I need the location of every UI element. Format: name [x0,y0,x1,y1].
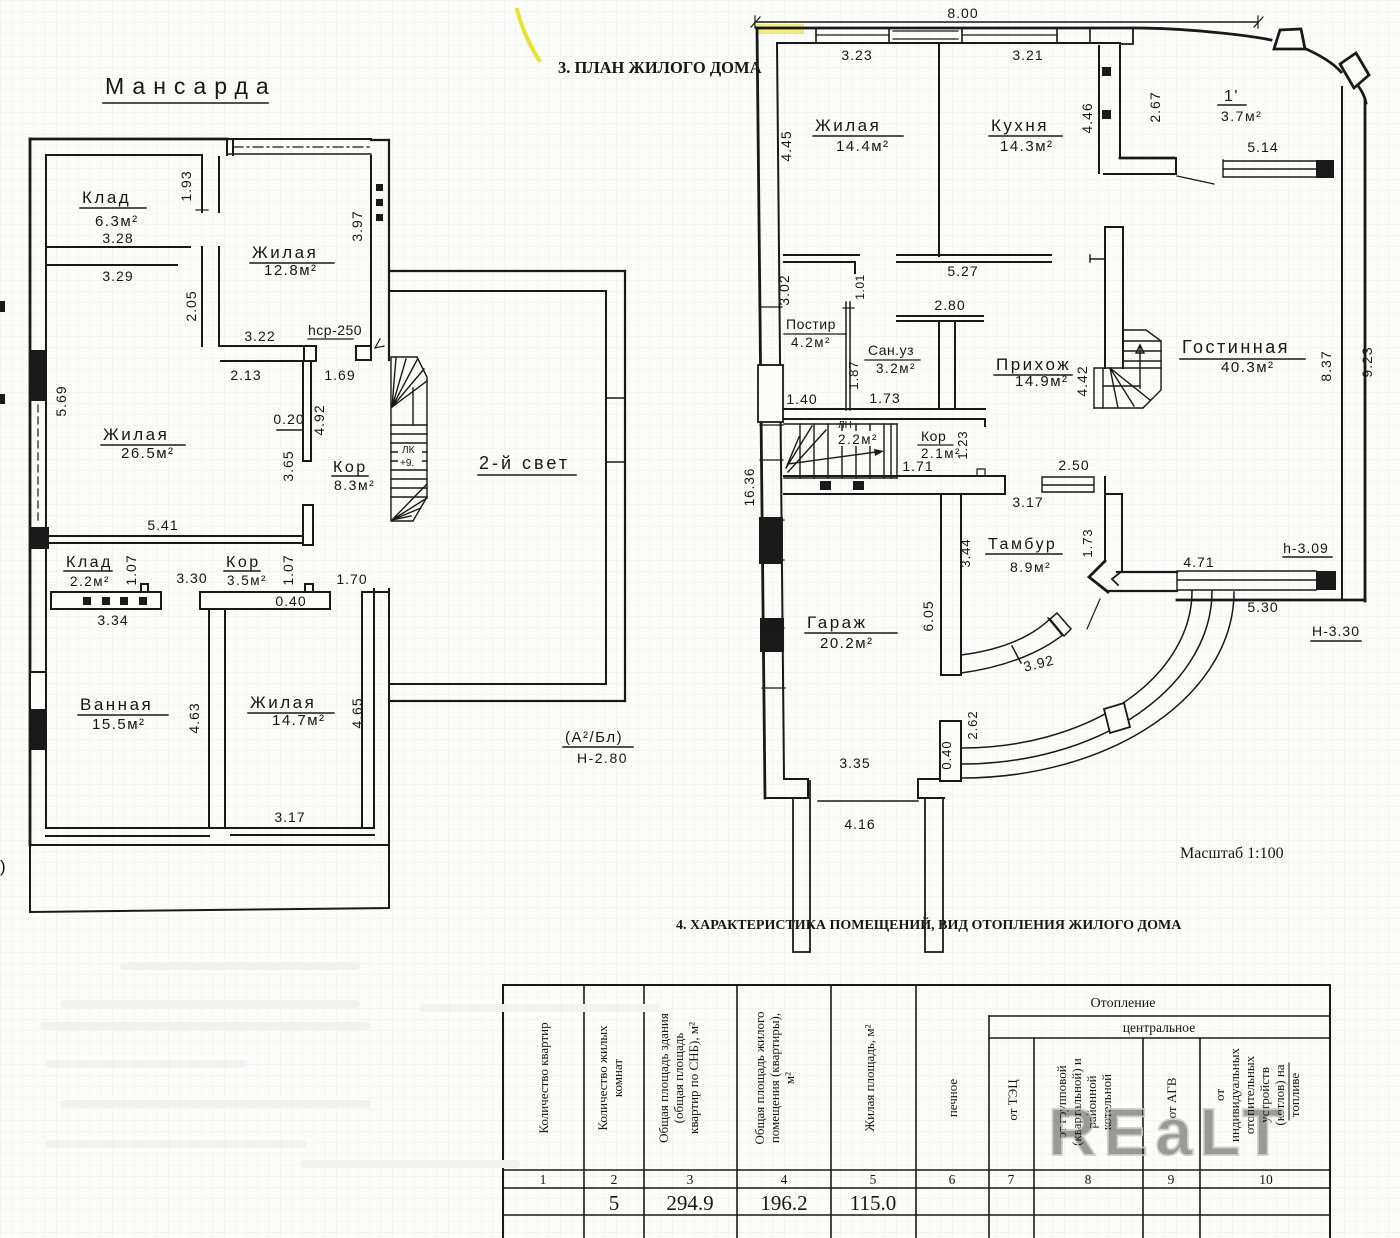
svg-text:12.8м²: 12.8м² [264,262,318,279]
room label Klad 6.3 [82,188,139,230]
rotated headers [536,1012,1302,1146]
svg-text:1.07: 1.07 [280,554,296,585]
partition wall 3.28/3.29 [46,247,190,265]
chimney bump 2 [1340,53,1369,88]
room label Tambur [988,536,1057,575]
garage bottom piers [765,779,808,798]
svg-text:7: 7 [1008,1172,1015,1187]
svg-text:6.05: 6.05 [920,600,936,631]
title Mansarda [105,73,277,99]
svg-text:3.02: 3.02 [776,274,792,305]
svg-text:печное: печное [945,1079,960,1118]
svg-text:3.30: 3.30 [176,570,207,586]
faint bleed-through smudges bottom left [40,962,660,1168]
stair box left plan [391,357,427,521]
svg-text:hср-250: hср-250 [308,322,362,338]
sill 2.80 [934,297,965,313]
svg-text:Гостинная: Гостинная [1182,337,1290,357]
svg-text:2.50: 2.50 [1058,457,1089,473]
svg-text:h-3.09: h-3.09 [1283,540,1329,556]
svg-text:14.4м²: 14.4м² [836,138,890,155]
top wall inner [777,42,1120,44]
left wall solid piers [759,517,783,564]
svg-text:4. ХАРАКТЕРИСТИКА ПОМЕЩЕНИЙ, В: 4. ХАРАКТЕРИСТИКА ПОМЕЩЕНИЙ, ВИД ОТОПЛЕН… [676,916,1182,933]
svg-text:3.5м²: 3.5м² [227,573,267,588]
dim line 8.00 [755,21,1258,23]
svg-text:Общая площадь здания: Общая площадь здания [656,1013,671,1143]
svg-text:294.9: 294.9 [666,1191,713,1215]
sill band row 2 [200,592,330,609]
room label Zhilaya 14.4 [815,116,890,155]
window vent squares [376,184,383,221]
svg-text:3.22: 3.22 [244,328,275,344]
svg-text:Гараж: Гараж [807,613,868,632]
label (A2/Bl) N-2.80 [565,729,628,766]
svg-text:20.2м²: 20.2м² [820,635,874,652]
partition vertical 4.92 [303,361,311,461]
plan title [558,58,762,77]
svg-text:16.36: 16.36 [742,468,757,507]
dim 1.87 (rot) [846,360,861,389]
svg-text:3.34: 3.34 [97,612,128,628]
garage right wall [941,494,961,675]
svg-text:1.73: 1.73 [869,390,900,406]
svg-text:Масштаб 1:100: Масштаб 1:100 [1180,845,1284,862]
svg-text:3.21: 3.21 [1012,47,1043,63]
room label Zhilaya 14.7 [250,693,326,729]
svg-text:2.13: 2.13 [230,367,261,383]
labels Klad 2.2 / Kor 3.5 row [66,554,368,589]
dim 1.93 (rot) [178,170,194,201]
wall squares [1102,67,1111,119]
svg-text:Отопление: Отопление [1091,996,1156,1011]
pier at stair corner [356,346,371,360]
svg-text:1.07: 1.07 [123,554,139,585]
room label 1' 3.7 [1221,88,1262,124]
NE corner room walls [1098,46,1100,173]
svg-text:центральное: центральное [1123,1020,1195,1035]
room label Kor 2.1 [902,428,970,474]
room label Kor 8.3 [333,459,375,493]
svg-text:5.69: 5.69 [53,385,69,416]
stair arrow small [375,339,384,348]
room label Prihozh [996,355,1071,390]
table horizontal lines [989,1015,1330,1017]
column numbers row [540,1172,1273,1187]
Sanuz right wall [939,321,955,409]
svg-text:3: 3 [687,1172,694,1187]
svg-text:196.2: 196.2 [760,1191,807,1215]
svg-text:14.7м²: 14.7м² [272,712,326,729]
svg-text:3.28: 3.28 [102,230,133,246]
svg-text:2.2м²: 2.2м² [838,432,878,447]
svg-text:1.69: 1.69 [324,367,355,383]
svg-text:8.9м²: 8.9м² [1010,559,1051,575]
svg-text:6.3м²: 6.3м² [95,213,139,230]
svg-text:15.5м²: 15.5м² [92,716,146,733]
table vertical lines [583,985,585,1238]
svg-text:Прихож: Прихож [996,355,1071,374]
step pier column [940,721,961,781]
svg-text:1.87: 1.87 [846,360,861,389]
svg-text:4.63: 4.63 [186,702,202,733]
top wall inner [46,154,202,156]
svg-text:2: 2 [611,1172,618,1187]
dim 2.05 (rot) [183,290,199,321]
svg-text:2.2м²: 2.2м² [70,574,110,589]
svg-text:Количество квартир: Количество квартир [536,1022,551,1133]
dim 8.37 / 9.23 (rot) [1318,346,1375,381]
chamfer miter [1089,561,1108,592]
table title [676,916,1182,933]
svg-text:115.0: 115.0 [850,1191,896,1215]
svg-text:2-й свет: 2-й свет [479,453,570,473]
svg-text:1.40: 1.40 [786,391,817,407]
svg-text:квартир по СНБ), м²: квартир по СНБ), м² [686,1022,701,1134]
svg-text:4.2м²: 4.2м² [791,335,831,350]
svg-text:1.70: 1.70 [336,571,367,587]
svg-text:4.92: 4.92 [311,404,327,435]
partition Zhilaya/Kuhnya [938,43,940,256]
svg-text:5: 5 [609,1191,620,1215]
svg-text:1.01: 1.01 [853,274,867,299]
svg-text:Клад: Клад [66,554,113,571]
svg-text:Жилая: Жилая [103,425,169,444]
svg-text:5.41: 5.41 [147,517,178,533]
scale label [1180,845,1284,862]
svg-text:8: 8 [1085,1172,1092,1187]
svg-text:Жилая площадь, м²: Жилая площадь, м² [862,1024,877,1131]
room label Postir [786,316,836,350]
svg-text:Общая площадь жилого: Общая площадь жилого [752,1012,767,1145]
svg-text:26.5м²: 26.5м² [121,445,175,462]
shelf 5.27 [897,255,1051,262]
dim 3.17 [1012,494,1043,510]
svg-text:2.05: 2.05 [183,290,199,321]
svg-text:4.46: 4.46 [1079,102,1095,133]
svg-text:Кор: Кор [226,554,261,571]
partition Postir/Sanuz [846,302,850,410]
svg-text:ЛК: ЛК [402,445,415,456]
svg-text:+9.: +9. [400,458,414,469]
left wall window dash [37,405,39,520]
partition vertical Klad/Zhilaya12.8 [202,247,219,346]
south wall piece [1108,572,1177,591]
svg-text:4.45: 4.45 [778,130,794,161]
svg-text:8.3м²: 8.3м² [334,477,375,493]
header: Otoplenie [1091,996,1196,1035]
svg-text:): ) [0,857,6,876]
svg-text:Кор: Кор [333,459,368,476]
right wall lower [362,589,374,827]
svg-text:8.00: 8.00 [947,5,978,21]
right wall inner [1341,87,1343,600]
top window band to stair bay [227,138,371,140]
svg-text:(А²/Бл): (А²/Бл) [565,729,623,746]
svg-text:Жилая: Жилая [252,243,318,262]
svg-text:3.7м²: 3.7м² [1221,108,1262,124]
wing (2nd light) walls [391,270,625,272]
svg-text:2.67: 2.67 [1147,91,1163,122]
svg-text:1.71: 1.71 [902,458,933,474]
svg-text:Количество жилых: Количество жилых [595,1025,610,1131]
title underline [103,102,268,104]
dim 4.65 (rot) [349,697,365,728]
dim 4.42 rot (stair) [0,0,1,1]
svg-text:9.23: 9.23 [1359,346,1375,377]
door diag from chamfer [1087,599,1100,629]
svg-text:Мансарда: Мансарда [105,73,277,99]
svg-text:(общая площадь: (общая площадь [671,1033,686,1124]
svg-text:6: 6 [949,1172,956,1187]
dim 2.67 (rot) [1147,91,1163,122]
step tick left of stair wall [1090,255,1105,262]
svg-text:5: 5 [870,1172,877,1187]
svg-text:Постир: Постир [786,316,836,332]
svg-text:40.3м²: 40.3м² [1221,359,1275,376]
svg-text:3. ПЛАН ЖИЛОГО ДОМА: 3. ПЛАН ЖИЛОГО ДОМА [558,58,762,77]
svg-text:5.27: 5.27 [947,263,978,279]
chimney bump 1 [1274,29,1305,49]
right wall outer [1364,101,1367,601]
door swing diag [1177,176,1214,184]
window 4.71/5.30 [1177,571,1316,590]
right wall upper (inner) [370,156,372,346]
band divider [227,139,233,155]
stairs LN lower left [784,424,897,478]
svg-text:14.3м²: 14.3м² [1000,138,1054,155]
svg-text:3.2м²: 3.2м² [876,361,916,376]
left wall outer [29,139,32,845]
sill band row 1 with vents [51,592,161,609]
band above stairs [784,409,985,426]
stub above 5.41 wall [305,505,311,535]
top right curved wall [1133,28,1271,40]
room label Kuhnya 14.3 [991,116,1054,155]
Tambur walls [1105,477,1122,571]
svg-text:Кухня: Кухня [991,116,1049,135]
svg-text:9: 9 [1168,1172,1175,1187]
svg-text:комнат: комнат [610,1059,625,1098]
svg-text:8.37: 8.37 [1318,350,1334,381]
wall 3.22 [221,346,304,361]
thick band below stairs [784,476,1005,494]
room label Gostinnaya [1182,337,1290,376]
svg-text:3.17: 3.17 [274,809,305,825]
room label Vannaya [80,695,153,733]
threshold [818,800,918,802]
svg-text:3.17: 3.17 [1012,494,1043,510]
left wall outer [757,28,765,798]
svg-text:Жилая: Жилая [815,116,881,135]
big porch arcs [962,591,1192,748]
dim 3.97 (rot) [349,210,365,241]
dim 4.63 (rot) [186,702,202,733]
left wall pier ticks [759,307,785,688]
svg-text:3.29: 3.29 [102,268,133,284]
left wall pier solid 2 [31,527,49,549]
svg-text:4: 4 [781,1172,788,1187]
svg-text:м²: м² [782,1072,797,1084]
left wall window pier box [758,365,783,422]
svg-text:Клад: Клад [82,188,131,207]
svg-text:3.35: 3.35 [839,755,870,771]
svg-text:0.40: 0.40 [275,593,306,609]
window 5.14 [1247,139,1278,155]
terrace rect [30,845,389,912]
svg-text:1.23: 1.23 [955,430,970,459]
top wall outer [30,138,227,141]
data row [609,1191,896,1215]
stair upper flight [1094,330,1161,408]
svg-text:2.80: 2.80 [934,297,965,313]
svg-text:5.14: 5.14 [1247,139,1278,155]
svg-text:3.65: 3.65 [280,450,296,481]
stair right plan: wall [1105,227,1123,368]
top wall outer [757,27,1133,30]
svg-text:4.42: 4.42 [1074,365,1090,396]
svg-text:5.30: 5.30 [1247,599,1278,615]
door jamb line top [202,157,219,212]
svg-text:Н-3.30: Н-3.30 [1312,623,1360,639]
right wall upper (outer) [388,140,390,360]
partition Vannaya/Zhilaya14.7 [209,609,225,827]
page left edge artifacts [0,301,5,312]
svg-text:Кор: Кор [921,428,946,444]
dims 3.23 / 3.21 [841,47,1043,63]
dim 16.36 (rot) [742,468,757,507]
yellow pen mark [517,10,539,60]
left wall inner [777,43,784,779]
svg-text:4.16: 4.16 [844,816,875,832]
top wall window segments [816,34,1057,36]
wing window ticks [606,398,625,462]
right wall top corner [371,139,389,141]
window 2.50 [1058,457,1089,473]
bottom wall [46,828,374,836]
dim 3.02 (rot) [776,274,792,305]
rotated square on arcs [1104,703,1130,733]
porch strip right [925,799,943,952]
svg-text:от ТЭЦ: от ТЭЦ [1005,1079,1020,1121]
svg-text:2.62: 2.62 [965,710,980,739]
yellow mark on wall [756,24,804,34]
svg-text:1.73: 1.73 [1080,528,1095,557]
svg-text:REaLT: REaLT [1048,1095,1290,1170]
wall 5.41 [46,536,303,543]
svg-text:1.93: 1.93 [178,170,194,201]
svg-text:1': 1' [1224,88,1239,105]
left wall pier solid 1 [29,350,46,401]
svg-text:4.71: 4.71 [1183,554,1214,570]
top wall step at 1133 [1120,28,1133,44]
dim 4.42 (rot) [1074,365,1090,396]
label 2nd light [479,453,570,473]
left wall inner [45,156,47,828]
table outer border [503,985,1330,1238]
left wall pier solid 4 [31,710,47,750]
small curved step band 3.92 [961,613,1071,673]
svg-text:1: 1 [540,1172,547,1187]
svg-text:ЛН: ЛН [838,420,852,431]
room label Garazh [807,613,874,652]
svg-text:Н-2.80: Н-2.80 [577,750,628,766]
svg-text:3.97: 3.97 [349,210,365,241]
svg-text:Тамбур: Тамбур [988,536,1057,553]
dim 5.69 (rot) [53,385,69,416]
watermark REaLT [1048,1095,1290,1170]
svg-text:помещения (квартиры),: помещения (квартиры), [767,1013,782,1143]
dim 3.17 [274,809,305,825]
svg-text:0.40: 0.40 [939,740,954,769]
sill tick top right [362,591,389,593]
svg-text:0.20: 0.20 [273,411,304,427]
room label Zhilaya 12.8 [252,243,318,279]
svg-text:3.23: 3.23 [841,47,872,63]
room label Zhilaya 26.5 [103,425,175,462]
svg-text:Сан.уз: Сан.уз [868,342,914,358]
svg-text:Жилая: Жилая [250,693,316,712]
svg-text:10: 10 [1259,1172,1273,1187]
svg-text:Ванная: Ванная [80,695,153,714]
left wall pier outline 3 [30,672,46,710]
dim 4.46 (rot) [1079,102,1095,133]
left shelf with hook [784,255,859,273]
porch strip left [793,781,810,952]
room label Sanuz [868,342,916,376]
dim 4.45 (rot) [778,130,794,161]
